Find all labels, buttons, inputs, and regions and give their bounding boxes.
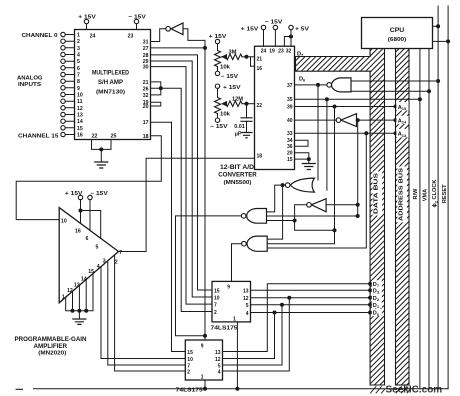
junction U12 output joins A15 vertical [333,228,337,232]
junction pin33/A13 branch [364,131,368,135]
-15V terminal above PGA [88,195,92,199]
junction D1 on data bus [368,303,372,307]
wire S/H pins 19,20 bracket [151,102,161,106]
multiplexed S/H amp U1 (MN7130) box [75,30,151,140]
wire inverter input from S/H pin 27 node [183,29,205,41]
svg-text:20: 20 [143,104,149,110]
svg-text:1: 1 [62,295,65,301]
stray mark bottom left [16,388,22,390]
svg-text:26: 26 [143,86,149,92]
svg-text:10k: 10k [220,112,230,118]
junction A14/vertical feed [356,118,360,122]
svg-text:(6800): (6800) [388,37,407,43]
junction phi2 tap [436,79,440,83]
ground below PGA [73,319,86,324]
wire NAND U7 output to latch U9 pin 9 line [176,216,242,336]
wire ADC pins 20,15 to ground [295,153,309,164]
-15V terminal at S/H pin 23 [136,24,138,30]
wire A14 node down to inverter U12 input and NAND U7 input [357,120,359,216]
svg-text:1: 1 [233,316,236,322]
svg-text:5: 5 [218,363,221,369]
wire S/H pin 30 to latch U8 pin 7 [151,67,213,305]
junction CPU/phi2 [436,24,440,28]
svg-text:18: 18 [257,154,263,160]
svg-text:D7: D7 [297,52,304,58]
junction A15 tap on address bus [394,105,398,109]
NAND gate U6 (phi2, VMA inputs) [332,78,351,92]
junction ADC pin 15 [307,157,311,161]
data bus (hatched band, with horizontal branch to ADC D7) [296,49,385,386]
potentiometer R1 10k (+15V to -15V) [215,39,219,43]
svg-text:3: 3 [77,46,80,52]
svg-text:+ 15V: + 15V [241,26,259,32]
svg-text:7: 7 [77,73,80,79]
svg-text:21: 21 [143,80,149,86]
wire D6 node down to NOR U10 input [317,85,319,180]
svg-text:24: 24 [90,33,96,39]
capacitor C1 0.01uF [246,104,248,118]
junction +15V branch [79,209,83,213]
NOR gate U10 [290,178,314,192]
junction A13 tap on address bus [394,131,398,135]
svg-text:5: 5 [246,303,249,309]
svg-text:(MN2020): (MN2020) [38,351,66,357]
wire PGA pin 4 to latch U9 pin 10 [101,267,185,359]
wire inverter U12 input [326,204,358,206]
svg-text:74LS175: 74LS175 [176,387,204,393]
wire CPU to RESET [433,40,449,42]
svg-text:74LS175: 74LS175 [211,325,239,331]
svg-text:1: 1 [201,374,204,380]
svg-text:− 15V: − 15V [90,191,108,197]
svg-text:10: 10 [61,219,67,225]
svg-text:33: 33 [287,131,293,137]
wire inverter U11 output to ADC pin 40 [295,119,337,121]
svg-text:15: 15 [287,157,293,163]
svg-text:12M: 12M [232,96,243,102]
svg-text:16: 16 [77,133,83,139]
inverter U12 [311,199,326,212]
latch U8 74LS175 box [212,281,251,322]
wire ADC pins 34,36 bracket [295,140,309,146]
svg-text:4: 4 [97,264,100,270]
svg-text:8: 8 [77,79,80,85]
svg-text:3: 3 [103,259,106,265]
junction PGA pin 12 ground [71,309,75,313]
junction D7 on data bus [368,282,372,286]
svg-text:7: 7 [119,250,122,256]
wire R/W bus line [419,49,421,389]
svg-text:(MN5500): (MN5500) [224,180,252,186]
latch U9 74LS175 box [185,340,222,380]
svg-text:35: 35 [287,97,293,103]
junction D2 on data bus [368,296,372,300]
wire bottom reset line [34,388,449,390]
junction PGA pin 13 ground [77,309,81,313]
junction pin39/A15 branch [333,105,337,109]
wire latch U8 pin 5 to data bus D1 [251,304,371,306]
svg-text:CHANNEL 15: CHANNEL 15 [18,134,59,140]
wire NOR U10 output to NAND U7 and NAND U13 inputs [267,185,286,239]
svg-text:15: 15 [187,350,193,356]
wire PGA pin 2 to latch U9 pin 2 [115,255,186,371]
svg-text:+ 15V: + 15V [209,34,227,40]
wire inverter U12 output to NAND U7 and NAND U13 inputs [267,205,335,231]
+15V terminal at S/H pin 24 [86,24,88,30]
wire CPU to phi2 clock [433,25,439,27]
svg-text:31: 31 [143,40,149,46]
wire A15 node down to NAND U7 input [267,107,334,244]
svg-text:CHANNEL 0: CHANNEL 0 [22,33,58,39]
wire NAND U6 input from phi2 clock [351,80,438,82]
svg-text:− 15V: − 15V [221,74,239,80]
svg-text:23: 23 [278,48,284,54]
ground below S/H amp [95,162,108,168]
svg-text:MULTIPLEXED: MULTIPLEXED [92,69,129,76]
wire S/H pin 18 to PGA pin 10 [16,136,161,220]
junction PGA pin 14 ground [84,309,88,313]
wire latch U8 pin 13 to data bus D3 [251,289,371,291]
NAND gate U13 [247,236,267,251]
svg-text:9: 9 [201,343,204,349]
wire latch U9 pin 5 joins D1 line [223,305,283,365]
svg-text:12: 12 [243,296,249,302]
wire latch U8 pin 4 to data bus D0 [251,312,371,314]
svg-text:25: 25 [111,134,117,140]
svg-text:12: 12 [77,106,83,112]
NAND gate U7 [247,209,267,224]
wire ADC pin 35 to R/W [295,98,420,100]
wire A13 node down to NAND U13 input [267,133,366,248]
svg-text:D0: D0 [373,311,380,317]
svg-text:+ 15V: + 15V [78,15,96,21]
svg-text:2: 2 [214,310,217,316]
data bus continuation ticks [371,387,385,394]
junction U9 pin12/D0 [273,311,277,315]
resistor R2 3M with wiper arrow to R1 [226,54,242,60]
svg-text:11: 11 [77,99,83,105]
svg-text:12-BIT A/D: 12-BIT A/D [220,164,255,171]
junction 12M output [245,102,249,106]
junction 3M output [245,55,249,59]
svg-text:12: 12 [215,357,221,363]
junction U9 pin4/D2 [287,296,291,300]
wire pin35 node down to NOR U10 input [326,99,328,190]
junction U9 pin5/D1 [280,303,284,307]
svg-text:− 15V: − 15V [210,124,228,130]
junction pin27/inverter input [203,46,207,50]
svg-text:12: 12 [67,288,73,294]
svg-text:14: 14 [77,119,83,125]
svg-text:INPUTS: INPUTS [18,82,41,88]
svg-text:AMPLIFIER: AMPLIFIER [34,343,68,350]
svg-text:SeekIC.com: SeekIC.com [386,385,443,396]
svg-text:+ 5V: + 5V [295,26,309,32]
junction U12 output fanout [293,219,297,223]
junction R/W tap [418,97,422,101]
svg-text:S/H AMP: S/H AMP [98,79,123,86]
svg-text:ADDRESS BUS: ADDRESS BUS [398,168,404,221]
svg-text:28: 28 [143,53,149,59]
svg-text:ϕ2 CLOCK: ϕ2 CLOCK [432,180,438,208]
svg-text:20: 20 [287,151,293,157]
wire S/H pin 17 to latch U9 pin 15 [151,122,186,351]
wire latch U9 pin 4 joins D2 line [223,298,290,371]
svg-text:13: 13 [77,113,83,119]
svg-text:4: 4 [77,53,80,59]
svg-text:21: 21 [257,57,263,63]
wire latch U8 pin 1 to reset line [236,322,238,389]
svg-text:10: 10 [187,357,193,363]
svg-text:7: 7 [214,302,217,308]
+15V terminal above PGA [78,195,82,199]
svg-text:3M: 3M [229,49,237,55]
+15V terminal at ADC pin 24 [263,30,265,47]
CPU U4 (6800) box [362,18,433,49]
svg-text:23: 23 [128,33,134,39]
svg-text:RESET: RESET [442,184,448,203]
svg-text:17: 17 [143,120,149,126]
ground below ADC pins 20,15 [302,164,315,170]
svg-text:D3: D3 [373,289,380,295]
wire S/H pins 21,26,32 bracket [151,82,161,95]
address bus (hatched band) [396,49,410,386]
wire VMA bus line [428,49,430,389]
svg-text:6: 6 [77,66,80,72]
wire PGA pin 3 to latch U9 pin 7 [108,261,186,365]
svg-text:16: 16 [257,66,263,72]
svg-text:2: 2 [187,370,190,376]
ground below C1 [241,133,252,138]
svg-text:10: 10 [77,93,83,99]
wire S/H pin 27 [151,47,206,49]
junction VMA tap [427,89,431,93]
wire NAND U7 middle input to A14 node [267,215,358,217]
junction D0 on data bus [368,310,372,314]
svg-text:39: 39 [287,104,293,110]
potentiometer R3 10k (+15V to -15V) [215,84,219,88]
junction D3 on data bus [368,288,372,292]
-15V terminal at ADC pin 19 [274,30,276,47]
wire S/H pin 29 to latch U8 pin 10 [151,61,213,297]
svg-text:4: 4 [218,370,221,376]
wire latch U9 pin 1 to reset line [204,380,206,389]
svg-text:10k: 10k [220,65,230,71]
svg-text:ANALOG: ANALOG [17,76,43,82]
svg-text:37: 37 [287,83,293,89]
svg-text:13: 13 [243,288,249,294]
analog input channel circles and wires (pins 1-16) [65,35,74,135]
wires PGA pins 1,12,13,14,15 to ground bar [66,274,93,319]
wire latch U9 pin 12 joins D0 line [223,313,275,359]
+5V terminal at ADC pins 23,32 [284,30,291,47]
svg-text:40: 40 [287,118,293,124]
wire NAND U6 input from VMA [351,90,429,92]
svg-text:A15: A15 [398,105,407,111]
junction S/H pin 26 [159,86,163,90]
svg-text:15: 15 [88,269,94,275]
svg-text:22: 22 [92,134,98,140]
svg-text:2: 2 [77,39,80,45]
svg-text:0.01: 0.01 [234,124,245,130]
svg-text:(MN7130): (MN7130) [96,89,125,95]
wire ADC pin 37 (D6) to NAND U6 output [295,84,327,86]
svg-text:9: 9 [227,284,230,290]
svg-text:16: 16 [75,229,81,235]
junction NOR output fanout [281,183,285,187]
svg-text:13: 13 [215,350,221,356]
svg-text:7: 7 [187,363,190,369]
wire +15V to PGA pin 16 and pin 5 [81,200,101,239]
junction inverter U12 input [356,203,360,207]
svg-text:A14: A14 [398,119,407,125]
junction +5V branch [289,35,293,39]
labels D7 D3 D2 D1 D0 at data bus [372,280,382,287]
junction CPU/RESET [446,39,450,43]
wire latch U8 pin 12 to data bus D2 [251,297,371,299]
svg-text:5: 5 [77,59,80,65]
wire S/H pin 26 node to latch U8 pin 2 [161,88,212,311]
wire RESET bus line [447,6,449,389]
programmable-gain amplifier U3 (MN2020) triangle [59,208,118,303]
svg-text:− 15V: − 15V [265,20,283,26]
address bus continuation ticks [396,387,410,394]
junction A14 tap on address bus [394,118,398,122]
wire ADC pin 18 to PGA output pin 7 [119,158,255,251]
svg-text:5: 5 [96,245,99,251]
svg-text:32: 32 [143,93,149,99]
svg-text:30: 30 [143,65,149,71]
svg-text:2: 2 [115,260,118,266]
svg-text:9: 9 [77,86,80,92]
svg-text:4: 4 [246,311,249,317]
wire ADC pin 33 to address bus A13 [295,132,396,134]
svg-text:A13: A13 [398,132,407,138]
resistor R4 12M with wiper arrow to R3 [226,101,242,107]
svg-text:15: 15 [214,288,220,294]
junction NAND U7 middle input [356,214,360,218]
wire inverter output to S/H pin 31 [151,29,166,42]
svg-text:µF: µF [235,131,242,137]
junction NAND U7 output joins latch clock line [203,334,207,338]
junction S/H ground [99,147,103,151]
svg-text:13: 13 [74,282,80,288]
wire S/H pin 28 to latch U8 pin 15 [151,55,213,290]
svg-text:CONVERTER: CONVERTER [218,172,257,179]
svg-text:24: 24 [261,48,267,54]
svg-text:15: 15 [77,126,83,132]
wire S/H pin 27 / NAND U7 output down to latch U9 pin 9 [204,40,206,340]
junction pin35/NOR input feed [325,97,329,101]
inverter U2 above (drives S/H pin 31) [171,23,183,35]
svg-text:36: 36 [287,144,293,150]
svg-text:1: 1 [77,33,80,39]
svg-text:VMA: VMA [422,189,428,201]
label DATA BUS (rotated) [373,172,383,216]
svg-text:22: 22 [257,103,263,109]
svg-text:DATA BUS: DATA BUS [373,173,379,214]
wire S/H pins 22,25 to ground [92,140,112,163]
svg-text:D6: D6 [299,77,306,83]
wire phi2 clock bus line [437,6,439,389]
wire latch U9 pin 13 to data bus D7 [223,284,371,352]
svg-text:+ 15V: + 15V [223,85,241,91]
labels A15 A14 A13 at address bus [396,102,408,110]
svg-text:14: 14 [81,276,87,282]
label ADDRESS BUS (rotated) [397,167,407,223]
wire inverter U11 input from address bus A14 [357,119,396,121]
wire -15V to PGA pin 6 [89,200,91,231]
12-bit A/D converter U5 (MN5500) box [255,46,295,169]
svg-text:32: 32 [286,48,292,54]
junction U8 pin1/reset [235,387,239,391]
wire NAND U13 output to latch U8 pin 9 [232,244,242,282]
svg-text:R/W: R/W [413,188,419,200]
junction U9 pin1/reset [203,387,207,391]
svg-text:27: 27 [143,46,149,52]
svg-text:18: 18 [143,134,149,140]
wire ADC pin 39 to address bus A15 [295,106,396,108]
svg-text:+ 15V: + 15V [65,191,83,197]
inverter U11 (A14) [341,114,357,127]
svg-text:6: 6 [86,236,89,242]
svg-text:− 15V: − 15V [128,15,146,21]
svg-text:10: 10 [214,295,220,301]
svg-text:CPU: CPU [390,27,405,34]
svg-text:D1: D1 [373,303,380,309]
junction D6/NOR input feed [316,83,320,87]
wire 3M output to ADC pin 16 [251,57,255,67]
svg-text:19: 19 [269,48,275,54]
